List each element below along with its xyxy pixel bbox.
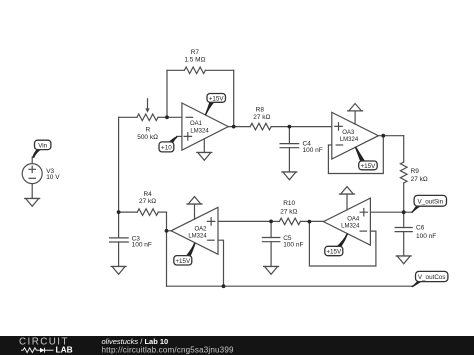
svg-text:LM324: LM324: [188, 234, 207, 240]
svg-text:R4: R4: [143, 191, 152, 198]
node C5: [269, 220, 273, 224]
ground (V3): [25, 199, 40, 207]
wire: OA3 feedback loop: [328, 136, 383, 174]
wire: OA2 non-inverting input to C5 node: [218, 220, 271, 222]
svg-text:C6: C6: [416, 225, 425, 232]
capacitor C5: [262, 221, 279, 266]
svg-text:R10: R10: [283, 200, 295, 207]
node OA1 out: [232, 125, 236, 129]
flag +10: [159, 136, 178, 152]
node A: [165, 115, 169, 119]
capacitor C4: [280, 127, 299, 172]
node C3/R4: [117, 210, 121, 214]
svg-text:1.5 MΩ: 1.5 MΩ: [184, 56, 205, 63]
resistor R7: [167, 67, 234, 74]
svg-text:http://circuitlab.com/cng5sa3j: http://circuitlab.com/cng5sa3jnu399: [102, 345, 234, 354]
ground (C5): [264, 267, 279, 275]
flag V_outCos: [411, 271, 448, 287]
wire: OA1 output to R8: [228, 126, 250, 128]
svg-text:+15V: +15V: [175, 258, 191, 265]
svg-text:OA3: OA3: [342, 130, 355, 136]
flag Vin: [32, 140, 51, 158]
flag +15V (OA1): [205, 94, 226, 116]
wire: OA2 inverting feedback to bottom rail: [218, 240, 224, 286]
svg-text:R: R: [145, 127, 150, 134]
wire: node A vertical to R7: [166, 70, 168, 117]
node V_outSin: [402, 210, 406, 214]
wire: OA3 output: [378, 135, 403, 137]
wire: OA4 non-inverting input line: [370, 211, 411, 213]
ground (C4): [282, 172, 297, 180]
wire: OA4 feedback loop: [309, 222, 376, 266]
resistor R8: [250, 123, 289, 130]
svg-text:LM324: LM324: [340, 137, 359, 143]
wire: bottom rail: [167, 285, 412, 287]
op-amp OA4: [324, 198, 371, 245]
wire: +10 input stub: [177, 135, 182, 137]
capacitor C6: [395, 212, 412, 256]
svg-text:OA4: OA4: [347, 217, 360, 223]
svg-text:+15V: +15V: [209, 95, 225, 102]
wire: OA4 output to R10: [300, 220, 323, 222]
footer logo resistor-diode art: [21, 348, 54, 353]
svg-text:V_outSin: V_outSin: [418, 198, 444, 205]
wire: C4 node to OA3 non-inverting input: [289, 126, 331, 128]
node C4: [288, 125, 292, 129]
resistor R10: [271, 218, 300, 225]
svg-text:R8: R8: [256, 107, 265, 114]
power arrow (OA3): [348, 104, 363, 125]
svg-text:LM324: LM324: [190, 128, 209, 134]
svg-text:+10: +10: [161, 145, 172, 152]
svg-text:OA1: OA1: [190, 121, 203, 127]
potentiometer R: [119, 99, 167, 121]
wire: OA2 output stub: [167, 230, 172, 232]
flag +15V (OA2): [174, 243, 196, 265]
svg-text:+15V: +15V: [360, 163, 376, 170]
op-amp OA1: [182, 103, 228, 150]
resistor R9: [400, 136, 407, 213]
svg-text:V_outCos: V_outCos: [418, 274, 446, 281]
svg-text:R9: R9: [411, 168, 420, 175]
svg-text:27 kΩ: 27 kΩ: [411, 176, 428, 183]
flag V_outSin: [411, 195, 447, 213]
svg-text:100 nF: 100 nF: [132, 242, 152, 249]
power arrow (OA4): [340, 187, 355, 210]
wire: R7 right vertical to OA1 output: [233, 70, 235, 126]
op-amp OA2: [171, 207, 218, 254]
svg-text:100 nF: 100 nF: [303, 147, 323, 154]
ground (OA1): [197, 139, 212, 160]
wire: R4 bend down through OA2 output node to rail: [166, 212, 168, 286]
svg-text:500 kΩ: 500 kΩ: [137, 134, 158, 141]
node OA2 out: [165, 229, 169, 233]
svg-text:100 nF: 100 nF: [416, 233, 436, 240]
svg-text:OA2: OA2: [194, 227, 207, 233]
node OA3 out: [381, 134, 385, 138]
flag +15V (OA4): [325, 233, 348, 256]
svg-text:10 V: 10 V: [46, 174, 60, 181]
ground (C3): [111, 267, 126, 275]
node OA4 out: [308, 220, 312, 224]
op-amp OA3: [332, 112, 379, 159]
resistor R4: [119, 209, 167, 216]
ground (C6): [396, 256, 411, 264]
svg-text:Vin: Vin: [38, 142, 47, 149]
svg-text:27 kΩ: 27 kΩ: [139, 198, 156, 205]
footer bar: [0, 336, 474, 355]
svg-text:27 kΩ: 27 kΩ: [253, 114, 270, 121]
net flags: [32, 94, 448, 288]
wire: node A to OA1 inverting input: [167, 116, 182, 118]
svg-text:LAB: LAB: [56, 344, 73, 354]
flag +15V (OA3): [355, 147, 377, 170]
svg-text:R7: R7: [191, 49, 200, 56]
svg-text:27 kΩ: 27 kΩ: [280, 208, 297, 215]
svg-text:+15V: +15V: [326, 249, 342, 256]
node rail: [222, 284, 226, 288]
wire: left vertical from pot to R4 node: [118, 117, 120, 212]
svg-text:LM324: LM324: [341, 224, 360, 230]
capacitor C3: [110, 212, 129, 266]
power arrow (OA2): [187, 197, 202, 220]
voltage source V3: [22, 157, 42, 199]
svg-text:100 nF: 100 nF: [283, 242, 303, 249]
